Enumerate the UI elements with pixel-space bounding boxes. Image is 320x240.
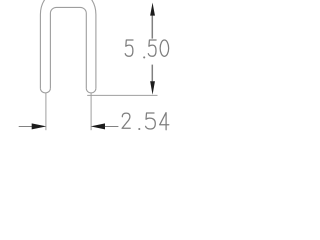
dimension text 5.50 bbox=[125, 40, 168, 58]
digit 4 bbox=[160, 113, 169, 130]
extension line, left leg center bbox=[45, 93, 47, 130]
digit 0 bbox=[160, 40, 169, 56]
part outline: right leg bottom cap bbox=[86, 88, 96, 93]
dimension line 2.54, left tail bbox=[19, 126, 33, 128]
digit 5 bbox=[146, 113, 156, 129]
part outline: inner contour bbox=[50, 7, 86, 88]
arrowhead right (points at left leg) bbox=[32, 123, 47, 129]
part outline: U-shaped wire jumper, outer contour (top arc clipped by view) bbox=[40, 0, 96, 88]
extension line, right leg center bbox=[90, 93, 92, 130]
extension line, horizontal at part bottom bbox=[87, 94, 157, 96]
digit 2 bbox=[122, 113, 130, 128]
digit 5 bbox=[148, 40, 156, 56]
dimension line 5.50, upper segment bbox=[151, 15, 153, 38]
decimal point bbox=[143, 56, 145, 58]
arrowhead left (points at right leg) bbox=[91, 123, 105, 129]
dimension line 5.50, lower segment bbox=[151, 65, 153, 82]
dimension line 2.54, right tail bbox=[105, 126, 119, 128]
dimension text 2.54 bbox=[122, 113, 169, 130]
arrowhead up bbox=[150, 3, 155, 16]
part outline: left leg bottom cap bbox=[40, 88, 50, 93]
digit 5 bbox=[125, 40, 133, 56]
decimal point bbox=[138, 128, 140, 130]
arrowhead down bbox=[150, 81, 155, 95]
